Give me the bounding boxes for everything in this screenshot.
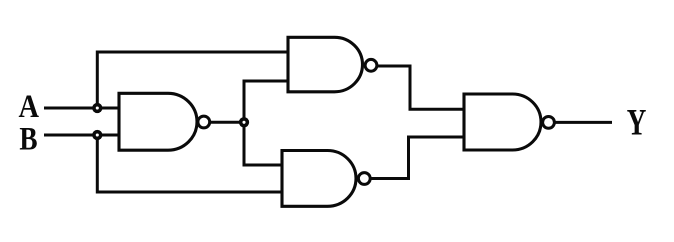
svg-text:A: A [19, 89, 40, 125]
svg-text:Y: Y [627, 103, 647, 144]
svg-text:B: B [19, 122, 37, 158]
